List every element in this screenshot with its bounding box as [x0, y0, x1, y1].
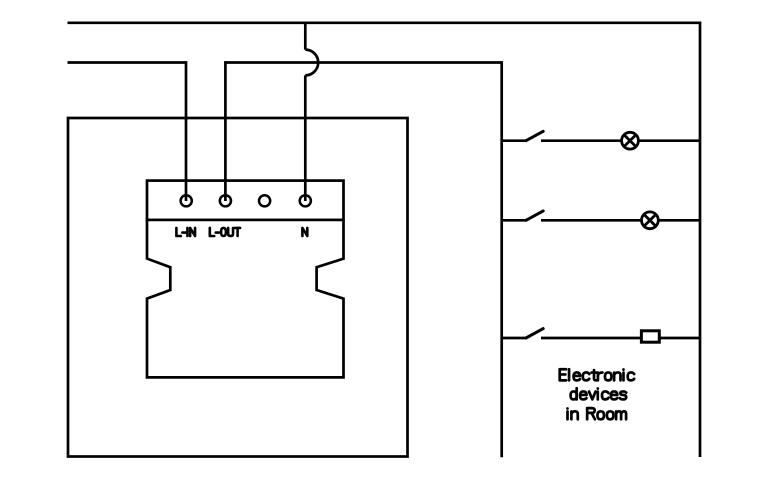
- lamp E2 cross: [643, 214, 656, 227]
- wire switch stub branch 1: [502, 139, 526, 142]
- wire lamp to neutral bus branch 1: [638, 139, 700, 142]
- text line 1: Electronic: [560, 369, 634, 380]
- wire lamp to neutral bus branch 2: [658, 219, 700, 222]
- terminal L-IN: [181, 195, 192, 206]
- wire hop over L line: [305, 50, 318, 76]
- wire switch stub branch 3: [502, 337, 526, 340]
- switch S3 blade: [526, 329, 543, 338]
- label L-OUT: [210, 228, 240, 236]
- label L-IN: [176, 228, 195, 236]
- terminal N: [300, 195, 311, 206]
- wire drop to L-IN terminal: [185, 61, 188, 201]
- wire L to L-IN (horizontal segment): [68, 61, 187, 64]
- wire drop to L-OUT terminal: [224, 61, 227, 201]
- wire L (mains line, top horizontal): [68, 21, 701, 24]
- wire L-OUT feed (horizontal segment): [225, 61, 501, 64]
- relay module terminal strip: [147, 181, 344, 220]
- lamp E1 cross: [623, 134, 636, 147]
- wire switched-line bus (left vertical): [500, 61, 503, 457]
- wire neutral bus (right vertical): [699, 21, 702, 457]
- wire N drop from top line: [304, 23, 307, 50]
- wire switch stub branch 2: [502, 219, 526, 222]
- wall box (outer enclosure): [68, 118, 408, 457]
- switch S2 blade: [526, 211, 543, 220]
- wire N drop to N terminal: [304, 75, 307, 201]
- wire switch to lamp branch 2: [541, 219, 642, 222]
- label N: [302, 228, 307, 236]
- text line 2: devices: [571, 388, 627, 399]
- switch S1 blade: [526, 131, 543, 140]
- lamp E2: [642, 212, 659, 229]
- wire switch to load branch 3: [541, 337, 641, 340]
- wire switch to lamp branch 1: [541, 139, 622, 142]
- wire load to neutral bus branch 3: [659, 337, 700, 340]
- lamp E1: [622, 132, 639, 149]
- terminal (unused): [259, 195, 270, 206]
- relay module body with side notches: [147, 220, 344, 378]
- terminal L-OUT: [220, 195, 231, 206]
- text line 3: in Room: [568, 408, 627, 419]
- load box (electronic devices): [641, 331, 659, 342]
